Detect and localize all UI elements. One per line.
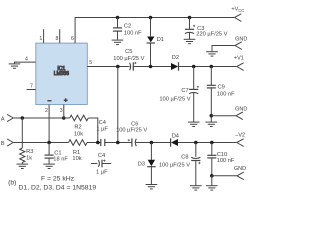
svg-text:C7: C7 — [181, 88, 188, 94]
wire D4 to -V2 — [178, 142, 237, 144]
diode D2 — [171, 55, 179, 71]
wire C6 to D4 — [136, 142, 171, 144]
terminal +V1 — [234, 55, 244, 70]
capacitor C7 (electrolytic) — [159, 67, 199, 122]
wire A dot down through B row to R3 — [21, 118, 23, 148]
svg-text:1k: 1k — [26, 155, 32, 161]
terminal A — [1, 114, 13, 122]
wire C4 to C6 — [105, 142, 132, 144]
svg-text:F = 25 kHz: F = 25 kHz — [41, 176, 75, 183]
svg-text:C1: C1 — [54, 150, 61, 156]
svg-text:1 µF: 1 µF — [96, 169, 108, 175]
wire B row — [13, 142, 68, 144]
capacitor C6 (electrolytic, series) — [116, 122, 147, 147]
wire R1 to C4 — [87, 142, 101, 144]
node dot C3/top rail — [188, 16, 192, 20]
terminal GND mid right — [211, 107, 247, 120]
svg-text:100 µF/25 V: 100 µF/25 V — [116, 128, 147, 134]
ground below C2 — [112, 40, 124, 44]
capacitor C2 — [113, 18, 142, 40]
pin 7 stub — [27, 84, 36, 90]
svg-text:100 nF: 100 nF — [217, 91, 235, 97]
node dot C9 bottom / GND mid — [210, 114, 214, 118]
pin 2 wire down to B row — [45, 105, 49, 143]
svg-text:GND: GND — [235, 107, 247, 113]
capacitor C4 (series) — [96, 120, 108, 146]
svg-text:C4: C4 — [99, 120, 106, 126]
svg-text:100 µF/25 V: 100 µF/25 V — [113, 56, 144, 62]
svg-text:C8: C8 — [181, 154, 188, 160]
capacitor C3 (electrolytic) — [185, 18, 228, 40]
capacitor C10 — [207, 143, 235, 176]
svg-text:2: 2 — [45, 108, 48, 114]
node dot R2-corner/R1/C4 — [96, 141, 100, 145]
svg-text:6: 6 — [71, 36, 74, 42]
capacitor C1 — [45, 143, 69, 164]
ground below C1 — [43, 164, 55, 168]
svg-text:100 µF/25 V: 100 µF/25 V — [159, 96, 190, 102]
node dot C8 — [194, 141, 198, 145]
capacitor C4 alternate (note symbol) — [91, 153, 111, 175]
capacitor C9 — [207, 67, 235, 116]
terminal +Vcc — [231, 7, 244, 22]
svg-text:C5: C5 — [125, 49, 132, 55]
svg-text:GND: GND — [235, 36, 247, 42]
svg-text:B: B — [1, 141, 5, 147]
svg-text:1 µF: 1 µF — [96, 127, 108, 133]
node dot C2/top rail — [116, 16, 120, 20]
svg-text:100 nF: 100 nF — [217, 158, 235, 164]
diode D4 — [171, 134, 179, 147]
terminal GND top right — [212, 36, 247, 51]
svg-text:8: 8 — [56, 36, 59, 42]
svg-text:220 µF/25 V: 220 µF/25 V — [196, 32, 227, 38]
pin 1 stub — [43, 29, 45, 43]
node dot C7 — [192, 65, 196, 69]
svg-text:+V1: +V1 — [234, 55, 244, 61]
svg-text:C2: C2 — [124, 24, 131, 30]
svg-text:A: A — [1, 117, 5, 123]
ground below R3 — [17, 164, 29, 168]
terminal GND bottom right — [212, 166, 246, 180]
svg-text:7: 7 — [30, 84, 33, 90]
node dot pin3/A row — [62, 116, 66, 120]
svg-text:D2: D2 — [172, 55, 179, 61]
svg-text:R1: R1 — [73, 150, 80, 156]
node dot C9 — [210, 65, 214, 69]
svg-text:100 nF: 100 nF — [124, 30, 142, 36]
node dot pin2/C1 — [47, 141, 51, 145]
wire C10 dot to ground — [211, 176, 213, 186]
wire D2 to +V1 — [179, 66, 237, 68]
svg-text:10k: 10k — [72, 156, 81, 162]
svg-text:C9: C9 — [218, 85, 225, 91]
svg-text:GND: GND — [234, 166, 246, 172]
ground at pin 4 — [9, 64, 21, 68]
wire A row — [13, 117, 64, 119]
wire vertical pin5 row down to B row — [117, 67, 119, 143]
wire C5 to D2 — [133, 66, 171, 68]
pin 5 wire — [87, 60, 129, 67]
node dot C10 — [210, 141, 214, 145]
ground below C7 — [188, 122, 200, 126]
svg-text:100 µF/25 V: 100 µF/25 V — [159, 163, 190, 169]
node dot pin5/vertical — [116, 65, 120, 69]
svg-text:+VCC: +VCC — [231, 7, 244, 13]
node dot D1/top rail — [149, 16, 153, 20]
ground below C8 — [190, 186, 202, 190]
ground below GND terminal — [206, 52, 218, 56]
svg-text:18 nF: 18 nF — [53, 157, 68, 163]
diode D3 — [138, 143, 156, 185]
terminal B — [1, 139, 13, 147]
svg-text:(b): (b) — [8, 179, 16, 186]
svg-text:D4: D4 — [172, 134, 179, 140]
pin 8 stub — [59, 29, 61, 43]
node dot A/R3 — [21, 116, 25, 120]
capacitor C5 (electrolytic, series) — [113, 49, 144, 71]
node dot D3/B row — [150, 141, 154, 145]
wire C9 dot to ground — [210, 116, 212, 122]
node dot D1 bottom — [149, 65, 153, 69]
node dot pin5-vert/B row — [116, 141, 120, 145]
svg-text:D1, D2, D3, D4 = 1N5819: D1, D2, D3, D4 = 1N5819 — [19, 185, 97, 192]
svg-text:C4: C4 — [98, 153, 105, 159]
svg-text:–V2: –V2 — [235, 132, 245, 138]
svg-text:LM386: LM386 — [54, 71, 69, 77]
svg-text:R2: R2 — [74, 125, 81, 131]
svg-text:3: 3 — [60, 108, 63, 114]
svg-text:4: 4 — [25, 57, 28, 63]
resistor R1 — [69, 140, 88, 162]
resistor R2 — [64, 115, 88, 137]
node dot C10 bottom / GND bot — [210, 174, 214, 178]
IC IC1 LM386 body — [36, 43, 88, 104]
pin 4 wire to ground — [15, 57, 36, 64]
capacitor C8 (electrolytic) — [159, 143, 201, 186]
ground below D3 — [146, 185, 158, 189]
svg-text:1: 1 — [39, 36, 42, 42]
svg-text:R3: R3 — [26, 149, 33, 155]
svg-text:5: 5 — [89, 60, 92, 66]
wire R3 to ground — [21, 163, 23, 164]
diode D1 — [147, 18, 164, 67]
ground below C9 — [206, 122, 218, 126]
wire pin6 to top rail and +Vcc — [75, 18, 234, 44]
svg-text:D1: D1 — [157, 37, 164, 43]
resistor R3 — [20, 148, 34, 162]
svg-text:10k: 10k — [74, 132, 83, 138]
ground below C10 — [206, 186, 218, 190]
pin 3 wire down to A row — [60, 105, 64, 119]
wire R2 to corner down to B row — [88, 118, 98, 143]
terminal -V2 — [235, 132, 245, 146]
ground below C3 — [184, 39, 196, 43]
svg-text:D3: D3 — [138, 162, 145, 168]
